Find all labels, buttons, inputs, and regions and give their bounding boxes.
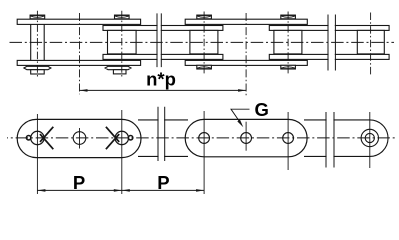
inner link plate B (plan view bottom bar)	[103, 54, 223, 59]
centerline pin J4	[287, 12, 289, 76]
inner plate D end arc (side view)	[370, 120, 388, 156]
roller at joint J2	[108, 30, 137, 54]
bushing circle J5 (side view)	[361, 129, 378, 146]
outer plate C obround (side view)	[185, 119, 307, 156]
svg-text:n*p: n*p	[146, 69, 176, 90]
roller at joint J4	[274, 30, 302, 54]
cotter pin loop J2	[128, 136, 132, 140]
hole J3 circle (side view)	[199, 133, 210, 144]
svg-text:P: P	[73, 172, 85, 193]
leader line G	[231, 109, 250, 124]
centerline mid hole M3 / extension line	[245, 13, 247, 97]
pin circle J1 (side view)	[31, 131, 44, 144]
pin head cap bottom J4	[281, 65, 296, 69]
cotter washer J1	[24, 66, 51, 69]
svg-text:G: G	[255, 99, 269, 120]
inner plate B edge (side view)	[138, 120, 188, 156]
inner link plate B (plan view top bar)	[103, 26, 223, 31]
inner plate D edge (side view)	[304, 120, 370, 156]
dimension line P (second pitch)	[122, 189, 204, 191]
pin tip J1	[31, 70, 45, 74]
chain break gap (side view left)	[159, 107, 165, 163]
chain break gap (plan view right)	[329, 14, 335, 72]
pin head cap top J2	[115, 15, 130, 19]
svg-text:P: P	[157, 172, 169, 193]
centerline / extension line J2	[121, 110, 123, 194]
horizontal centerline (plan view)	[10, 41, 395, 43]
pin head cap bottom J3	[197, 65, 212, 69]
pin hole circle J5 (side view)	[365, 133, 374, 142]
inner link plate D (plan view top bar)	[269, 26, 389, 31]
pin tip J2	[113, 70, 126, 74]
centerline tick M1	[79, 128, 81, 149]
centerline joint J5	[370, 13, 372, 76]
centerline tick M3	[245, 122, 247, 151]
mid hole M3 circle (side view)	[241, 133, 252, 144]
centerline tick J4	[287, 112, 289, 170]
inner link plate D (plan view bottom bar)	[269, 54, 389, 59]
horizontal centerline (side view)	[7, 137, 395, 139]
outer link plate C (plan view bottom bar)	[185, 60, 307, 65]
outer link plate A (plan view bottom bar)	[17, 60, 140, 65]
pin head cap top J4	[281, 15, 296, 19]
outer link plate C (plan view top bar)	[185, 19, 307, 24]
dimension line n*p	[80, 89, 247, 91]
centerline mid hole M1 / extension line	[79, 13, 81, 94]
pin circle J2 (side view)	[115, 131, 128, 144]
pin J1 body	[31, 24, 45, 60]
mid hole M1 circle (side view)	[73, 132, 86, 145]
centerline pin J2	[121, 11, 123, 78]
cotter pin loop J1	[26, 136, 30, 140]
dimension line P (first pitch)	[37, 189, 121, 191]
centerline tick J5	[369, 112, 371, 168]
cotter washer J2	[105, 66, 131, 69]
centerline pin J1	[36, 11, 38, 79]
pin head cap top J3	[197, 15, 212, 19]
centerline / extension line J1	[36, 114, 38, 194]
centerline / extension line J3	[203, 111, 205, 194]
hole J4 circle (side view)	[283, 133, 294, 144]
chain break gap (plan view left)	[158, 13, 161, 69]
roller at joint J3	[190, 30, 218, 54]
chain break gap (side view right)	[327, 112, 334, 169]
centerline pin J3	[203, 12, 205, 76]
cotter pin spread legs J2	[106, 127, 119, 149]
outer link plate A (plan view top bar)	[17, 19, 140, 24]
cotter pin spread legs J1	[40, 127, 53, 149]
roller at joint J5	[357, 30, 384, 54]
pin head cap top J1	[30, 15, 45, 19]
outer plate A obround (side view)	[17, 119, 141, 157]
